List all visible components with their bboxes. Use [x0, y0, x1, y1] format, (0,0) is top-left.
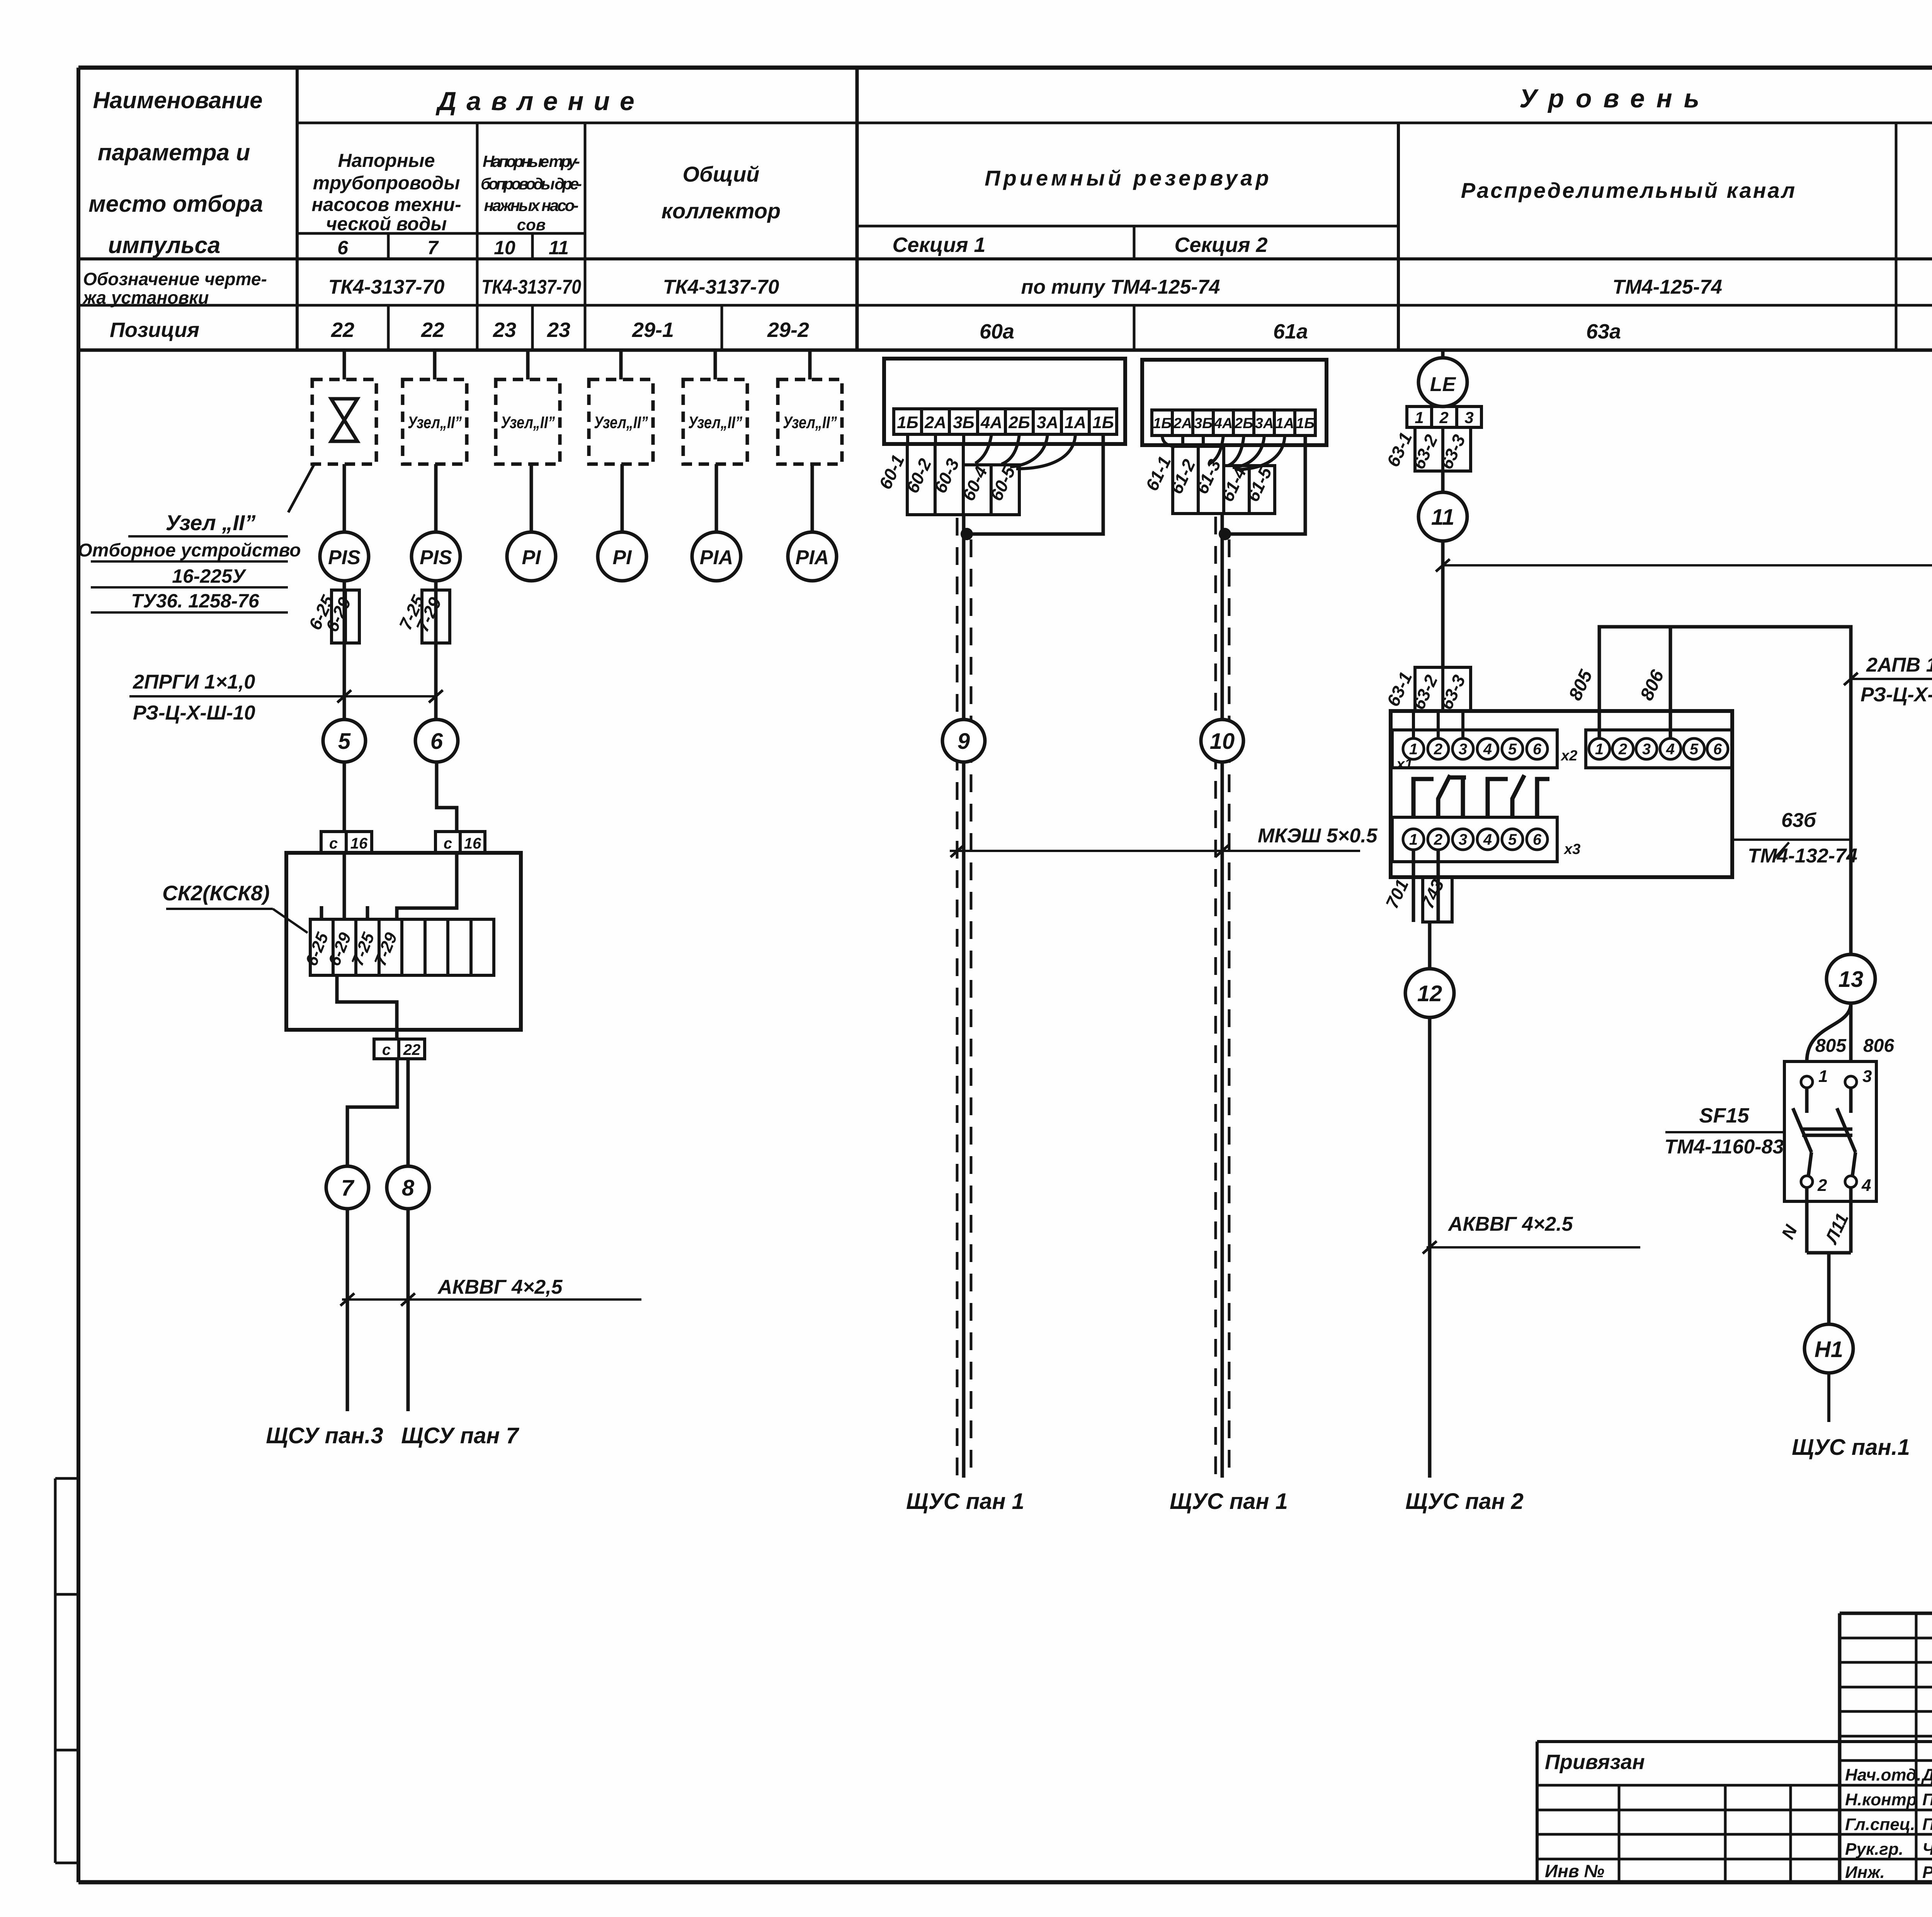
- svg-text:параметра и: параметра и: [98, 139, 250, 165]
- instrument PIS pos.22-7: [412, 532, 460, 581]
- wire circle6 to terminal box c16 (with jog): [437, 762, 457, 832]
- svg-text:3А: 3А: [1037, 413, 1058, 432]
- SF15 terminals 1 3: [1801, 1076, 1813, 1088]
- svg-text:Попов: Попов: [1922, 1815, 1932, 1834]
- core tag rects 63-2 63-3 (above box 63б): [1415, 667, 1471, 711]
- svg-text:4А: 4А: [980, 413, 1002, 432]
- wires circle 13 to SF15 terminals: [1807, 1003, 1851, 1061]
- wire PIS1 down to circle 5: [343, 581, 346, 721]
- instrument PIS pos.22-6: [320, 532, 369, 581]
- header: Напорные трубопроводы насосов технической воды: [311, 150, 461, 235]
- svg-text:Н1: Н1: [1815, 1337, 1843, 1362]
- svg-text:место отбора: место отбора: [88, 191, 263, 217]
- svg-text:ТК4-3137-70: ТК4-3137-70: [481, 276, 581, 298]
- svg-text:Узел „II”: Узел „II”: [166, 510, 256, 535]
- svg-text:насосов техни-: насосов техни-: [311, 194, 461, 215]
- svg-text:ЩУС пан.1: ЩУС пан.1: [1792, 1435, 1910, 1460]
- svg-text:ЩУС пан 1: ЩУС пан 1: [1170, 1489, 1288, 1514]
- svg-text:Позиция: Позиция: [110, 318, 199, 342]
- lamp circle Н1: [1804, 1324, 1853, 1373]
- cable number circle 12: [1405, 969, 1454, 1017]
- svg-text:4: 4: [1861, 1176, 1871, 1195]
- instrument PIA pos.29-2: [788, 532, 837, 581]
- cable number circle 5: [323, 720, 366, 762]
- svg-text:10: 10: [1210, 729, 1235, 754]
- svg-text:коллектор: коллектор: [662, 199, 781, 223]
- svg-text:12: 12: [1417, 981, 1442, 1006]
- svg-text:Инж.: Инж.: [1845, 1863, 1885, 1882]
- svg-text:Уровень: Уровень: [1519, 84, 1711, 113]
- svg-text:7: 7: [341, 1175, 355, 1201]
- cable number circle 10: [1201, 720, 1243, 762]
- svg-text:1: 1: [1415, 408, 1423, 427]
- cable core tag rects 61-2..61-5: [1173, 446, 1275, 514]
- svg-text:6: 6: [1533, 831, 1542, 848]
- svg-text:РЗ-Ц-Х-Ш-10: РЗ-Ц-Х-Ш-10: [133, 702, 255, 724]
- cable number circle 7: [326, 1166, 369, 1209]
- valve bowtie symbol: [331, 399, 357, 441]
- svg-text:8: 8: [402, 1175, 415, 1201]
- svg-text:29-2: 29-2: [767, 318, 809, 342]
- svg-text:РЗ-Ц-Х-Ш-10: РЗ-Ц-Х-Ш-10: [1861, 684, 1932, 706]
- svg-text:63б: 63б: [1781, 809, 1817, 832]
- svg-text:6: 6: [337, 237, 349, 259]
- svg-text:2: 2: [1434, 741, 1442, 758]
- svg-text:Нач.отд.: Нач.отд.: [1845, 1766, 1921, 1784]
- svg-text:АКВВГ 4×2,5: АКВВГ 4×2,5: [437, 1276, 563, 1298]
- svg-text:Узел„II”: Узел„II”: [783, 413, 837, 432]
- svg-text:по типу ТМ4-125-74: по типу ТМ4-125-74: [1021, 276, 1220, 298]
- device box 63б outline: [1391, 711, 1732, 877]
- svg-text:Напорные тру-: Напорные тру-: [483, 152, 580, 170]
- junction dot 61: [1219, 528, 1231, 540]
- svg-text:9: 9: [957, 729, 970, 754]
- svg-text:с: с: [382, 1041, 391, 1058]
- sampling device box 23-11 (dashed) Узел II: [589, 379, 653, 464]
- svg-text:806: 806: [1863, 1036, 1894, 1056]
- cable run line ЗАПВ (11 to 14): [1443, 564, 1932, 566]
- sampling device box 29-2 (dashed) Узел II: [778, 379, 842, 464]
- header: Общий коллектор: [662, 162, 781, 223]
- svg-text:трубопроводы: трубопроводы: [313, 173, 460, 194]
- wire Н1 down: [1827, 1373, 1830, 1422]
- SF15 terminals 2 4: [1801, 1176, 1813, 1187]
- svg-text:2АПВ 1×2.5: 2АПВ 1×2.5: [1866, 654, 1932, 676]
- svg-text:PI: PI: [612, 546, 632, 569]
- svg-text:Обозначение черте-: Обозначение черте-: [83, 269, 267, 289]
- svg-text:Отборное устройство: Отборное устройство: [78, 540, 301, 561]
- signature rows: [1845, 1766, 1932, 1882]
- svg-text:х3: х3: [1563, 841, 1580, 857]
- svg-text:Долотов: Долотов: [1921, 1766, 1932, 1784]
- svg-text:ЩУС пан 2: ЩУС пан 2: [1405, 1489, 1524, 1514]
- svg-text:Узел„II”: Узел„II”: [408, 413, 462, 432]
- wire circle 11 down to 63б tags: [1441, 541, 1445, 667]
- svg-text:3: 3: [1464, 408, 1473, 427]
- svg-text:Наименование: Наименование: [93, 87, 262, 113]
- multicore cable 60 run (solid with dashed companions): [962, 515, 966, 1478]
- wires from boxes to instrument circles: [344, 464, 812, 532]
- svg-text:SF15: SF15: [1699, 1104, 1749, 1127]
- svg-text:61а: 61а: [1273, 320, 1308, 343]
- sampling device box 22-7 (dashed) Узел II: [403, 379, 467, 464]
- terminal strip 61a: [1152, 410, 1315, 435]
- svg-text:Гл.спец.: Гл.спец.: [1845, 1815, 1915, 1834]
- svg-text:СК2(КСК8): СК2(КСК8): [162, 881, 270, 905]
- svg-text:Узел„II”: Узел„II”: [594, 413, 648, 432]
- svg-text:сов: сов: [517, 216, 546, 234]
- sub header numbers 6 7 10 11: [337, 237, 569, 259]
- svg-text:7: 7: [427, 237, 439, 259]
- svg-text:16: 16: [350, 835, 368, 852]
- svg-text:5: 5: [1690, 741, 1699, 758]
- svg-text:Узел„II”: Узел„II”: [688, 413, 742, 432]
- terminal box c/16 left: [321, 832, 372, 853]
- svg-text:6: 6: [1533, 741, 1542, 758]
- svg-text:Радовицкая: Радовицкая: [1922, 1863, 1932, 1882]
- svg-text:23: 23: [547, 318, 570, 342]
- terminal box c/22: [374, 1039, 425, 1059]
- svg-text:ТК4-3137-70: ТК4-3137-70: [328, 276, 445, 298]
- svg-text:5: 5: [1508, 831, 1517, 848]
- svg-text:ТМ4-1160-83: ТМ4-1160-83: [1665, 1136, 1784, 1158]
- stub to level sensor 63: [1441, 350, 1445, 359]
- svg-text:Напорные: Напорные: [338, 150, 435, 171]
- fan-out wires 60a: [908, 434, 1075, 469]
- svg-text:13: 13: [1838, 967, 1864, 992]
- instrument PIA pos.29-1: [692, 532, 741, 581]
- svg-text:23: 23: [493, 318, 516, 342]
- svg-text:1: 1: [1818, 1067, 1828, 1086]
- svg-text:1Б: 1Б: [1296, 415, 1315, 432]
- header table grid: [78, 68, 1932, 350]
- level sensor LE pos.63a: [1418, 358, 1467, 407]
- cable number circle 6: [415, 720, 458, 762]
- wire stubs from position row to instrument boxes: [344, 350, 810, 379]
- instrument PI pos.23-10: [507, 532, 556, 581]
- svg-text:Секция 1: Секция 1: [892, 233, 985, 257]
- svg-text:63а: 63а: [1586, 320, 1621, 343]
- cable number circle 8: [387, 1166, 429, 1209]
- svg-text:1А: 1А: [1065, 413, 1086, 432]
- svg-text:1: 1: [1409, 831, 1418, 848]
- svg-text:5: 5: [338, 729, 351, 754]
- svg-text:Н.контр: Н.контр: [1845, 1790, 1917, 1809]
- wire c22 to circle 8: [406, 1059, 410, 1166]
- svg-text:ческой воды: ческой воды: [326, 214, 447, 235]
- svg-text:4: 4: [1666, 741, 1675, 758]
- terminal labels 60a: 1Б 2А 3Б 4А 2Б 3А 1А 1Б: [897, 413, 1114, 432]
- svg-text:Давление: Давление: [435, 87, 645, 116]
- svg-text:3Б: 3Б: [953, 413, 975, 432]
- svg-text:1: 1: [1409, 741, 1418, 758]
- svg-text:2Б: 2Б: [1234, 415, 1253, 432]
- wires from circles 7,8 down to panels: [346, 1209, 349, 1411]
- svg-text:Привязан: Привязан: [1545, 1750, 1645, 1774]
- svg-text:ЩСУ пан.3: ЩСУ пан.3: [266, 1423, 383, 1448]
- svg-text:2: 2: [1434, 831, 1442, 848]
- svg-text:3А: 3А: [1255, 415, 1274, 432]
- svg-text:11: 11: [1431, 505, 1454, 530]
- terminal strip X2 (63б): [1586, 730, 1732, 768]
- leader line to Узел II note: [288, 463, 315, 512]
- svg-text:22: 22: [331, 318, 354, 342]
- svg-text:16: 16: [464, 835, 481, 852]
- svg-text:1Б: 1Б: [1153, 415, 1172, 432]
- svg-text:805: 805: [1815, 1036, 1847, 1056]
- svg-text:PI: PI: [522, 546, 541, 569]
- cable number circle 11: [1418, 492, 1467, 541]
- svg-text:3: 3: [1459, 741, 1467, 758]
- svg-text:Рук.гр.: Рук.гр.: [1845, 1840, 1903, 1859]
- svg-text:11: 11: [549, 237, 569, 259]
- svg-text:Узел„II”: Узел„II”: [501, 413, 555, 432]
- cable core tag rects 60-2..60-5: [907, 444, 1019, 515]
- svg-text:22: 22: [421, 318, 444, 342]
- svg-text:4А: 4А: [1214, 415, 1233, 432]
- wire to circle 11: [1441, 471, 1445, 492]
- svg-text:29-1: 29-1: [632, 318, 674, 342]
- cable number circle 9: [942, 720, 985, 762]
- svg-text:2: 2: [1618, 741, 1627, 758]
- svg-text:10: 10: [494, 237, 515, 259]
- svg-text:ТМ4-125-74: ТМ4-125-74: [1612, 276, 1722, 298]
- svg-text:ТУ36. 1258-76: ТУ36. 1258-76: [131, 590, 259, 612]
- svg-text:3: 3: [1862, 1067, 1872, 1086]
- wire from 61a terminal 1Б(8) to cable junction: [1226, 435, 1305, 534]
- terminal strip 60a: [894, 409, 1117, 434]
- terminal strip X3 (63б): [1392, 817, 1557, 862]
- connector box 60a outline: [884, 359, 1125, 444]
- svg-text:2: 2: [1817, 1176, 1827, 1195]
- cable label 2АПВ 1х2.5 / РЗ-Ц-Х-Ш-10 (63 branch): [1851, 678, 1932, 680]
- svg-text:2Б: 2Б: [1008, 413, 1030, 432]
- svg-text:60а: 60а: [980, 320, 1014, 343]
- instrument PI pos.23-11: [598, 532, 646, 581]
- relay contacts between X1 and X3 (63б): [1413, 775, 1549, 817]
- wire PIS2 down to circle 6: [434, 581, 438, 721]
- svg-text:Приемный резервуар: Приемный резервуар: [985, 166, 1272, 190]
- svg-text:2А: 2А: [1173, 415, 1192, 432]
- svg-text:5: 5: [1508, 741, 1517, 758]
- svg-text:Распределительный канал: Распределительный канал: [1461, 178, 1796, 202]
- svg-text:22: 22: [403, 1041, 421, 1058]
- title block grid: [1537, 1613, 1932, 1882]
- internal wires in СК2: [321, 853, 457, 1039]
- wire stubs into X1 of 63б: [1413, 711, 1463, 738]
- wires 805 806 from X2 up and over to circle 13: [1599, 627, 1851, 954]
- svg-text:х1: х1: [1396, 756, 1413, 772]
- svg-text:3Б: 3Б: [1194, 415, 1213, 432]
- junction box СК2(КСК8) outline: [286, 853, 521, 1030]
- drawing designation values: [328, 276, 1722, 298]
- core tag rects 63-2 63-3 (top): [1415, 427, 1471, 471]
- svg-text:16-225У: 16-225У: [172, 565, 247, 587]
- svg-text:импульса: импульса: [108, 232, 221, 258]
- junction dot 60: [961, 528, 973, 540]
- svg-text:с: с: [329, 835, 338, 852]
- svg-text:3: 3: [1642, 741, 1651, 758]
- svg-text:1Б: 1Б: [1092, 413, 1114, 432]
- svg-text:4: 4: [1483, 831, 1492, 848]
- svg-text:2: 2: [1439, 408, 1448, 427]
- svg-text:1Б: 1Б: [897, 413, 918, 432]
- svg-text:6: 6: [1713, 741, 1722, 758]
- terminal box c/16 right: [435, 832, 485, 853]
- multicore cable 61 run: [1221, 514, 1224, 1478]
- SF15 breaker poles: [1793, 1088, 1855, 1176]
- terminal tag pair 7-25 / 7-29: [422, 590, 450, 643]
- svg-text:PIS: PIS: [420, 546, 452, 569]
- svg-text:3: 3: [1459, 831, 1467, 848]
- cable tick marks on wires: [337, 690, 351, 703]
- wire to circle 12: [1428, 922, 1432, 969]
- svg-text:бопроводы дре-: бопроводы дре-: [481, 175, 582, 193]
- svg-text:нажных насо-: нажных насо-: [484, 196, 579, 214]
- svg-text:ЩУС пан 1: ЩУС пан 1: [906, 1489, 1024, 1514]
- sensor terminal box 1 2 3 (63): [1407, 407, 1481, 427]
- note block Узел II / Отборное устройство / 16-225У / ТУ36.1258-76: [78, 510, 301, 612]
- svg-text:6: 6: [430, 729, 443, 754]
- svg-text:Общий: Общий: [682, 162, 759, 186]
- terminal strip in СК2: [310, 919, 494, 975]
- wire circle5 to terminal box c16: [343, 762, 346, 832]
- terminal strip X1 (63б): [1392, 730, 1557, 768]
- svg-text:ТМ4-132-74: ТМ4-132-74: [1748, 845, 1857, 867]
- connector box 61a outline: [1142, 360, 1327, 445]
- svg-text:LE: LE: [1430, 373, 1456, 396]
- terminal labels 61a: 1Б 2А 3Б 4А 2Б 3А 1А 1Б: [1153, 415, 1315, 432]
- svg-text:х2: х2: [1560, 748, 1577, 764]
- wire c22 to circle 7 (with jog): [347, 1059, 397, 1166]
- position values: [331, 318, 1932, 343]
- svg-text:2ПРГИ 1×1,0: 2ПРГИ 1×1,0: [133, 671, 255, 693]
- sampling device box 22-6 (dashed): [312, 379, 376, 464]
- fan-out wires 61a: [1162, 435, 1285, 469]
- svg-text:ЩСУ пан 7: ЩСУ пан 7: [401, 1423, 519, 1448]
- svg-text:PIA: PIA: [700, 546, 733, 569]
- svg-text:МКЭШ 5×0.5: МКЭШ 5×0.5: [1258, 825, 1378, 847]
- svg-text:АКВВГ 4×2.5: АКВВГ 4×2.5: [1447, 1213, 1573, 1235]
- svg-text:PIS: PIS: [328, 546, 361, 569]
- terminal tag pair 6-25 / 6-29: [332, 590, 359, 643]
- svg-text:ТК4-3137-70: ТК4-3137-70: [663, 276, 779, 298]
- header column: Наименование параметра и место отбора импульса: [88, 87, 263, 258]
- wire circle 12 down to panel: [1428, 1017, 1432, 1478]
- sampling device box 29-1 (dashed) Узел II: [683, 379, 747, 464]
- svg-text:1А: 1А: [1276, 415, 1294, 432]
- svg-text:PIA: PIA: [796, 546, 829, 569]
- left margin stamp cells: [55, 1478, 78, 1863]
- cable number circle 13: [1827, 954, 1875, 1003]
- svg-text:1: 1: [1595, 741, 1604, 758]
- wires X3-1 X3-2 down with tags 701 743: [1412, 850, 1415, 922]
- svg-text:Секция 2: Секция 2: [1174, 233, 1267, 257]
- header: Напорные трубопроводы дренажных насосов: [481, 152, 582, 234]
- svg-text:жа установки: жа установки: [82, 287, 209, 308]
- svg-text:Инв №: Инв №: [1545, 1861, 1604, 1881]
- sampling device box 23-10 (dashed) Узел II: [496, 379, 560, 464]
- svg-text:Чубова: Чубова: [1922, 1840, 1932, 1859]
- svg-text:с: с: [444, 835, 452, 852]
- svg-text:4: 4: [1483, 741, 1492, 758]
- wires below SF15 with N and Л11: [1807, 1187, 1851, 1324]
- svg-text:2А: 2А: [924, 413, 946, 432]
- wire from 60a terminal 1Б(8) to cable junction: [969, 434, 1103, 534]
- circuit breaker SF15 box: [1784, 1061, 1876, 1201]
- svg-text:Попов: Попов: [1922, 1790, 1932, 1809]
